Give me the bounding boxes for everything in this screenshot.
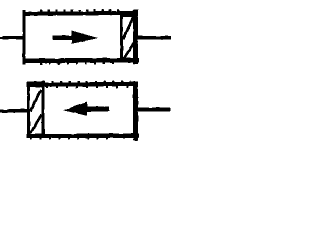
arrow (bottom device): head [63,102,87,115]
thick scan blob at top-right corner of top device [122,12,138,17]
hatch stroke 1 (top band, upper) [123,16,134,40]
hatch stroke 2 (top band, lower) [123,42,134,60]
wire: right lead of top device [136,36,171,39]
component body: top device rectangle [23,13,138,14]
wire: right lead of bottom device [136,108,171,111]
thick scan blob at top-left corner of bottom device [27,82,44,87]
arrow (top device): head [71,31,97,44]
hatched band (left end of bottom device): right boundary [41,85,44,135]
hatch stroke 1 (bottom band, upper) [31,90,41,112]
wire: left lead of bottom device [0,109,29,113]
component body: bottom device rectangle [27,82,138,86]
arrow (top device, pointing right): shaft [53,35,73,39]
wire: left lead of top device [0,37,3,39]
hatch stroke 2 (bottom band, lower) [30,115,41,134]
arrow (bottom device, pointing left): shaft [86,107,109,111]
hatched band (right end of top device): left boundary [120,14,123,61]
